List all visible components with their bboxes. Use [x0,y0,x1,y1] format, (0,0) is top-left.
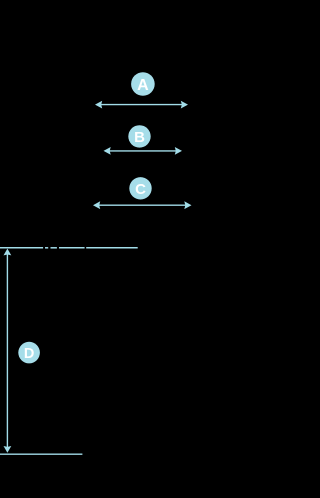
circle D [18,342,40,364]
arrow B (waist width, double-headed) [104,147,183,155]
svg-text:C: C [135,181,146,198]
dashed shoulder reference line [0,247,138,249]
vertical arrow D (length, double-headed) [4,249,12,453]
circle B [128,125,150,147]
bottom hem reference line [0,453,82,455]
circle A [131,72,155,96]
svg-text:A: A [137,77,149,94]
arrow A (chest width, double-headed) [95,101,188,109]
svg-text:D: D [24,346,34,362]
svg-text:B: B [134,129,145,146]
arrow C (hem width, double-headed) [93,201,192,209]
circle C [129,177,151,199]
